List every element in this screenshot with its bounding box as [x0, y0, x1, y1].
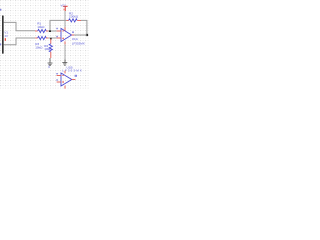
cropped text mid-left: [0, 44, 1, 46]
op-amp U1A bottom power pin: [64, 41, 66, 44]
svg-text:10kΩ: 10kΩ: [35, 45, 43, 49]
op-amp U1B output pin number: [75, 75, 77, 77]
op-amp U1A pin 3 number: [56, 36, 58, 37]
op-amp U1A minus mark: [62, 30, 64, 32]
power VCC value text: [63, 9, 64, 11]
wire output: [74, 34, 87, 36]
wire feedback down to output: [81, 20, 87, 35]
resistor R3 body: [38, 36, 47, 39]
ground GND2: [62, 60, 67, 66]
resistor R2 left pin: [66, 19, 68, 21]
op-amp U1B plus input pin: [57, 81, 61, 83]
junction plus node: [50, 38, 52, 40]
op-amp U1A pin 2 number: [56, 28, 58, 29]
op-amp U1B plus mark: [62, 81, 64, 83]
op-amp U1A output pin: [72, 34, 75, 36]
wire U1A vee to ground: [64, 44, 66, 61]
wire VCC to opamp: [64, 11, 66, 28]
junction minus node: [49, 30, 51, 32]
op-amp U1B body: [61, 73, 72, 86]
wire source top to R1: [4, 22, 35, 30]
svg-text:10kΩ: 10kΩ: [37, 25, 45, 29]
op-amp U1A plus input pin: [57, 37, 61, 39]
power VCC symbol: [63, 6, 68, 11]
op-amp U1B pin 5 number: [56, 79, 58, 80]
source V1 body bar: [2, 15, 4, 53]
wire source bottom to R3: [4, 38, 36, 45]
resistor R1 right pin: [46, 30, 48, 32]
op-amp U1A body: [61, 28, 72, 41]
wire feedback up-over: [50, 20, 66, 31]
wire minus node to opamp: [48, 30, 56, 32]
op-amp U1B minus input pin: [57, 75, 61, 77]
svg-text:VCC: VCC: [61, 4, 67, 8]
junction output node: [86, 34, 88, 36]
op-amp U1B minus mark: [62, 75, 64, 77]
svg-text:0: 0: [48, 65, 50, 69]
op-amp U1B pin 6 number: [56, 73, 58, 74]
op-amp U1A minus input pin: [57, 30, 61, 32]
svg-text:100kΩ: 100kΩ: [69, 15, 79, 19]
op-amp U1B top power pin: [64, 71, 66, 74]
resistor R4 body: [49, 44, 52, 52]
source V1 plus mark: [5, 38, 6, 41]
resistor R4 bottom pin: [50, 52, 52, 58]
svg-text:1V: 1V: [4, 34, 8, 38]
resistor R1 body: [38, 29, 47, 32]
svg-text:LF353MX: LF353MX: [72, 41, 85, 45]
cropped text top-left: [0, 9, 1, 11]
resistor R4 top pin: [50, 39, 52, 44]
op-amp U1A pin 1 number: [72, 31, 74, 33]
op-amp U1A plus mark: [62, 37, 64, 39]
resistor R2 right pin: [77, 19, 81, 21]
ground GND1: [48, 58, 53, 66]
op-amp U1B output pin: [72, 79, 76, 81]
resistor R1 left pin: [35, 30, 38, 32]
op-amp U1B bottom power pin: [64, 86, 66, 89]
wire plus node: [48, 37, 56, 39]
op-amp U1A top power pin: [64, 27, 66, 30]
resistor R3 right pin: [46, 37, 48, 39]
resistor R2 body: [69, 19, 78, 22]
resistor R3 left pin: [35, 37, 37, 39]
